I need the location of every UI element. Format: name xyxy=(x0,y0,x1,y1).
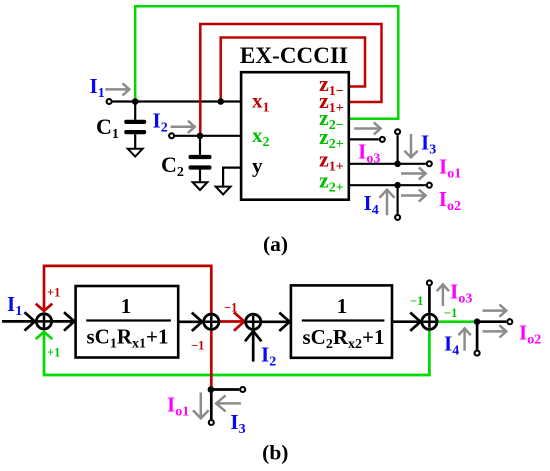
svg-text:+1: +1 xyxy=(47,346,60,360)
svg-text:(b): (b) xyxy=(262,441,288,465)
svg-text:sC1Rx1+1: sC1Rx1+1 xyxy=(87,325,169,352)
svg-text:(a): (a) xyxy=(263,232,288,256)
svg-text:−1: −1 xyxy=(191,339,204,353)
svg-text:y: y xyxy=(252,154,263,178)
svg-text:1: 1 xyxy=(121,294,132,318)
svg-text:−1: −1 xyxy=(224,301,237,315)
svg-text:sC2Rx2+1: sC2Rx2+1 xyxy=(303,325,385,352)
svg-text:−1: −1 xyxy=(444,306,457,320)
svg-text:+1: +1 xyxy=(47,286,60,300)
svg-text:−1: −1 xyxy=(410,294,423,308)
svg-text:EX-CCCII: EX-CCCII xyxy=(240,43,348,68)
svg-text:1: 1 xyxy=(337,294,348,318)
